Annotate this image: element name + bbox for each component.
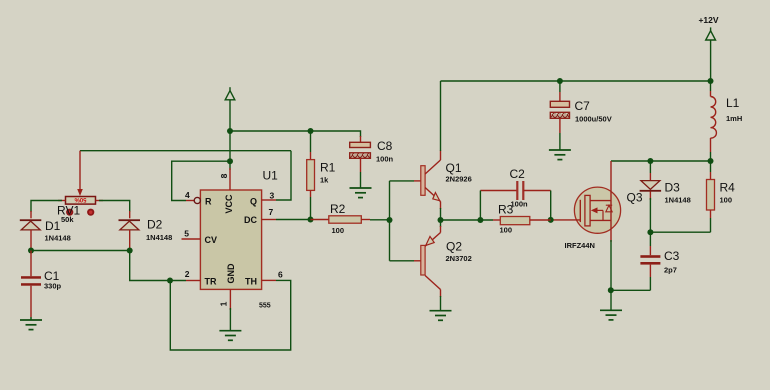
node D1/C1 junction xyxy=(28,248,34,254)
wire feedback top run xyxy=(80,150,291,152)
capacitor C3 2p7 xyxy=(640,232,679,290)
svg-text:C3: C3 xyxy=(664,249,680,263)
svg-text:5: 5 xyxy=(184,228,189,238)
wire top-left rail xyxy=(230,131,361,137)
wire drain rail xyxy=(611,160,711,162)
pin 6 TH threshold xyxy=(245,269,283,286)
svg-text:2p7: 2p7 xyxy=(664,266,677,275)
wire D3 to bottom node xyxy=(649,198,651,232)
svg-text:8: 8 xyxy=(219,173,229,178)
ground (under Q2) xyxy=(430,311,452,321)
wire TR/TH under loop xyxy=(170,280,290,350)
potentiometer RV1 xyxy=(57,151,103,224)
wire DC run to R2 xyxy=(276,219,311,221)
transistor Q2 2N3702 PNP xyxy=(414,226,472,297)
svg-text:IRFZ44N: IRFZ44N xyxy=(565,241,595,250)
svg-text:1mH: 1mH xyxy=(726,114,742,123)
svg-text:DC: DC xyxy=(244,215,257,225)
wire R2 to base node xyxy=(370,219,390,221)
svg-text:330p: 330p xyxy=(44,282,62,291)
svg-text:100n: 100n xyxy=(376,155,394,164)
inductor L1 1mH xyxy=(711,96,743,138)
wire feedback Q to RV1 wiper xyxy=(276,151,291,200)
capacitor C1 330p xyxy=(21,251,62,318)
svg-text:R3: R3 xyxy=(498,203,514,217)
svg-text:L1: L1 xyxy=(726,96,740,110)
svg-text:100: 100 xyxy=(332,226,345,235)
svg-text:2: 2 xyxy=(185,269,190,279)
svg-text:TR: TR xyxy=(205,276,217,286)
svg-text:1N4148: 1N4148 xyxy=(665,196,691,205)
svg-text:D3: D3 xyxy=(665,180,681,194)
svg-text:Q1: Q1 xyxy=(446,161,462,175)
diode D2 1N4148 xyxy=(119,211,173,251)
svg-text:1: 1 xyxy=(219,301,229,306)
svg-text:R1: R1 xyxy=(320,161,336,175)
wire D3/R4 bottom link xyxy=(650,231,710,233)
svg-text:3: 3 xyxy=(270,190,275,200)
wire rail to L1 xyxy=(710,81,712,91)
ground (under C1) xyxy=(20,317,42,330)
node L1/R4 junction xyxy=(708,158,714,164)
svg-text:1000u/50V: 1000u/50V xyxy=(575,115,612,124)
svg-text:R: R xyxy=(205,196,212,206)
svg-text:50k: 50k xyxy=(61,215,74,224)
wire reset loop xyxy=(172,161,230,200)
svg-text:R2: R2 xyxy=(330,202,346,216)
wire C2 left riser xyxy=(479,191,481,221)
node R1 bottom junction xyxy=(308,217,314,223)
ground (under C7) xyxy=(549,150,571,160)
node TR branch junction xyxy=(167,278,173,284)
resistor R4 100 xyxy=(707,161,736,232)
wire RV1 right to D2 xyxy=(99,201,130,213)
svg-text:TH: TH xyxy=(245,276,257,286)
svg-text:2N2926: 2N2926 xyxy=(446,175,472,184)
wire power stem to rail xyxy=(229,100,231,131)
node C7 junction xyxy=(557,78,563,84)
wire +12V stem xyxy=(710,40,712,81)
ground (under U1) xyxy=(219,331,241,341)
resistor R2 100 xyxy=(311,202,371,235)
svg-text:1N4148: 1N4148 xyxy=(45,234,71,243)
svg-text:2N3702: 2N3702 xyxy=(446,254,472,263)
pin 7 DC discharge xyxy=(244,207,276,225)
svg-text:D1: D1 xyxy=(45,219,61,233)
svg-text:R4: R4 xyxy=(720,180,736,194)
svg-text:50%: 50% xyxy=(74,196,87,202)
node D3 top junction xyxy=(647,158,653,164)
node base junction xyxy=(387,217,393,223)
svg-text:+12V: +12V xyxy=(698,15,718,25)
wire U1 gnd xyxy=(229,308,231,331)
svg-text:1N4148: 1N4148 xyxy=(146,233,172,242)
capacitor C8 100n xyxy=(350,136,394,188)
node R3 right junction xyxy=(548,217,554,223)
wire VCC drop to U1 xyxy=(229,131,231,170)
svg-text:C7: C7 xyxy=(575,99,591,113)
svg-text:Q2: Q2 xyxy=(446,240,462,254)
wire base riser xyxy=(389,181,391,261)
transistor Q1 2N2926 NPN xyxy=(414,150,472,209)
wire C3 bottom run xyxy=(611,289,650,291)
svg-text:C8: C8 xyxy=(377,139,393,153)
wire emitter node to R3 xyxy=(441,219,494,221)
wire L1 to drain rail xyxy=(710,138,712,152)
wire RV1 left to D1 xyxy=(31,201,62,213)
power terminal +12V xyxy=(698,15,718,40)
wire anode rail D1-D2 xyxy=(31,250,130,252)
node +12V junction xyxy=(708,78,714,84)
node D3 bottom junction xyxy=(647,229,653,235)
wire emitter node xyxy=(440,208,442,227)
pin 3 Q output xyxy=(250,190,276,206)
pin 5 CV xyxy=(182,228,218,245)
pin 1 GND xyxy=(219,263,237,310)
svg-text:Q: Q xyxy=(250,196,257,206)
IC U1 555 timer body xyxy=(200,169,278,310)
power terminal VCC (left, unlabeled) xyxy=(225,87,235,100)
wire Q2 base xyxy=(390,260,415,262)
svg-text:1k: 1k xyxy=(320,176,329,185)
svg-text:D2: D2 xyxy=(147,218,163,232)
svg-text:U1: U1 xyxy=(263,169,279,183)
node C3 bottom junction xyxy=(608,287,614,293)
svg-text:CV: CV xyxy=(205,235,218,245)
wire Q1 collector riser xyxy=(440,81,442,151)
wire D2 drop to TR xyxy=(130,251,186,281)
svg-text:C2: C2 xyxy=(510,167,526,181)
diode D3 1N4148 xyxy=(640,161,691,205)
node rail/power junction xyxy=(227,128,233,134)
svg-text:6: 6 xyxy=(278,269,283,279)
ground (under C8) xyxy=(350,188,372,198)
svg-text:7: 7 xyxy=(269,207,274,217)
svg-text:4: 4 xyxy=(185,190,190,200)
svg-text:100: 100 xyxy=(500,226,513,235)
wire Q2 collector to ground xyxy=(440,296,442,311)
svg-text:GND: GND xyxy=(226,263,236,284)
resistor R1 1k xyxy=(307,131,336,220)
resistor R3 100 xyxy=(493,203,551,235)
pin 8 VCC xyxy=(219,168,234,214)
wire C2 right riser xyxy=(550,191,552,220)
capacitor C2 100n xyxy=(480,167,550,209)
diode D1 1N4148 xyxy=(20,211,71,251)
wire top rail to +12V xyxy=(441,80,711,82)
svg-text:555: 555 xyxy=(259,303,271,310)
node D2 junction xyxy=(127,248,133,254)
svg-text:100: 100 xyxy=(720,196,733,205)
pin 4 R (reset, inverted) xyxy=(185,190,212,206)
node emitter junction xyxy=(438,217,444,223)
capacitor C7 1000u/50V xyxy=(550,81,611,150)
ground (under Q3 source) xyxy=(600,310,622,320)
node R1 top junction xyxy=(308,128,314,134)
wire Q1 base xyxy=(390,180,415,182)
pin 2 TR xyxy=(185,269,217,287)
svg-text:Q3: Q3 xyxy=(627,190,643,204)
mosfet Q3 IRFZ44N xyxy=(551,161,643,250)
svg-text:VCC: VCC xyxy=(224,194,234,214)
node reset loop junction xyxy=(227,158,233,164)
node R3 left junction xyxy=(477,217,483,223)
wire source to ground xyxy=(610,240,612,310)
